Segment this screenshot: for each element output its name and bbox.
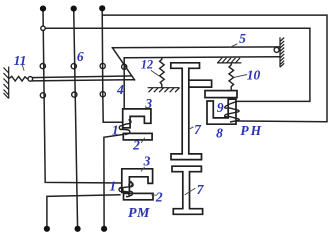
spring 12 xyxy=(160,57,165,87)
pivot of lever 5 xyxy=(274,47,279,52)
leader for label 12 xyxy=(151,70,159,76)
leader for label 3 lower xyxy=(141,167,145,172)
fixed contact 3 of linear contactor xyxy=(123,109,151,128)
switch 6 contact row 2 phase L3 xyxy=(100,92,105,97)
svg-text:2: 2 xyxy=(155,189,163,204)
svg-text:PM: PM xyxy=(128,206,150,221)
switch 6 contact row 2 phase L1 xyxy=(40,93,45,98)
leader for label 2 upper xyxy=(141,138,145,143)
coil of relay PH xyxy=(225,101,240,122)
wall anchor for lever 5 xyxy=(280,37,284,67)
switch 6 contact row 1 phase L3 xyxy=(100,63,105,68)
contact circle on wire junction xyxy=(41,26,45,30)
fixed contact 2 of linear contactor xyxy=(123,133,152,140)
svg-text:PH: PH xyxy=(240,123,263,138)
contact bridge bar bottom xyxy=(32,80,134,81)
switch 6 contact row 2 phase L2 xyxy=(72,92,77,97)
fixed support on lever 5 xyxy=(217,58,241,63)
lever 5 top edge xyxy=(112,46,279,49)
wire link 4 xyxy=(123,58,125,109)
supply terminal dot L2 xyxy=(71,6,77,12)
wall anchor for spring 11 xyxy=(4,67,9,99)
wire control top to relay coil xyxy=(43,28,310,101)
leader for label 2 lower xyxy=(151,194,157,196)
wire phase L1 bottom to PM contact xyxy=(47,195,120,229)
svg-text:6: 6 xyxy=(77,49,84,64)
svg-text:9: 9 xyxy=(217,100,224,115)
core 8 of relay PH xyxy=(207,99,236,124)
svg-text:12: 12 xyxy=(141,58,153,72)
leader for label 7 upper xyxy=(189,127,194,130)
blade 4 xyxy=(112,48,134,80)
rod 7 upper xyxy=(171,63,202,160)
fixed contact 3 of contactor PM xyxy=(122,169,153,193)
svg-text:3: 3 xyxy=(144,96,152,111)
svg-text:7: 7 xyxy=(197,182,205,197)
svg-text:1: 1 xyxy=(109,179,116,194)
leader for label 11 xyxy=(22,64,24,71)
svg-text:10: 10 xyxy=(247,68,261,83)
wire phase L3 lower from contactor 2 xyxy=(104,134,129,229)
contact bridge bar top xyxy=(32,76,131,78)
svg-text:3: 3 xyxy=(143,153,151,168)
svg-text:7: 7 xyxy=(194,122,202,137)
spring 10 xyxy=(229,63,234,91)
svg-text:2: 2 xyxy=(132,137,140,152)
svg-text:5: 5 xyxy=(239,31,246,46)
eye of spring 11 xyxy=(28,77,33,82)
svg-text:11: 11 xyxy=(14,53,27,68)
switch 6 contact row 1 phase L2 xyxy=(71,64,76,69)
motor terminal dot L2 xyxy=(75,226,81,232)
movable contact 1 of linear contactor xyxy=(119,126,123,130)
motor terminal dot L1 xyxy=(44,226,50,232)
supply terminal dot L3 xyxy=(99,5,105,11)
ground for spring 12 xyxy=(148,88,180,93)
rod 7 lower xyxy=(172,166,203,214)
supply terminal dot L1 xyxy=(40,6,46,12)
motor terminal dot L3 xyxy=(101,226,107,232)
svg-text:1: 1 xyxy=(112,122,119,137)
fixed contact 2 of contactor PM xyxy=(124,193,154,199)
svg-text:8: 8 xyxy=(216,126,223,141)
svg-text:4: 4 xyxy=(116,82,124,97)
switch 6 contact row 1 link 4 xyxy=(122,64,127,69)
wire phase L3 upper to contactor 3 xyxy=(102,8,123,122)
leader for label 10 xyxy=(234,75,247,78)
wire outer loop to relay coil xyxy=(102,15,327,122)
spring 11 xyxy=(9,76,28,81)
wire phase L2 vertical xyxy=(74,9,78,229)
movable contact 1 of contactor PM xyxy=(129,183,133,187)
lever 5 bottom edge xyxy=(124,57,280,58)
leader for label 5 xyxy=(230,44,237,48)
bracket arm of rod 7 over armature xyxy=(189,80,212,87)
armature 9 of relay PH xyxy=(205,91,237,98)
leader for label 7 lower xyxy=(185,188,196,195)
switch 6 contact row 1 phase L1 xyxy=(40,64,45,69)
wire phase L1 vertical xyxy=(43,9,123,183)
